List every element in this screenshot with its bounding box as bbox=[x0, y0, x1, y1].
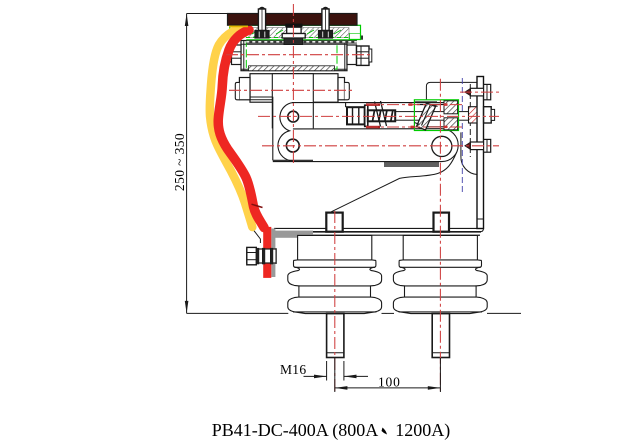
svg-text:250 ~ 350: 250 ~ 350 bbox=[172, 133, 187, 191]
svg-text:100: 100 bbox=[378, 375, 401, 390]
svg-text:PB41-DC-400A (800A 1200A): PB41-DC-400A (800A 1200A) bbox=[212, 420, 451, 441]
svg-text:M16: M16 bbox=[280, 362, 306, 377]
